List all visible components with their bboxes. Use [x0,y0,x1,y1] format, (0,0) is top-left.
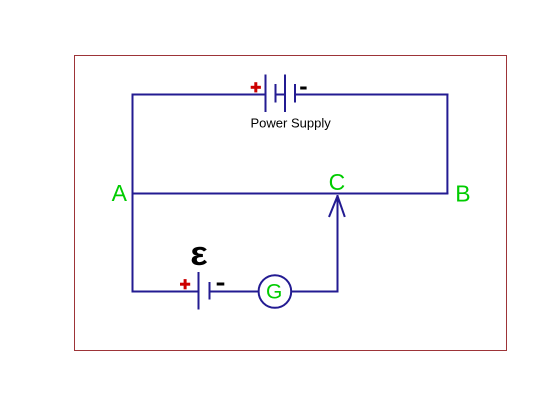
svg-text:B: B [455,180,470,206]
emf symbol epsilon [190,235,208,272]
wire: slide-wire A to B [132,193,449,195]
battery PS short plate 1 [275,84,277,103]
wire: bottom horizontal from left vertical to emf + plate [132,291,199,293]
wire: top-left horizontal from left vertical to power supply + plate [132,94,266,96]
wire: top-right horizontal from power supply - plate to right vertical [295,94,448,96]
wire: right vertical from top wire down to node B [446,94,448,195]
battery emf positive plate (tall) [198,272,200,310]
plus sign of emf [180,279,190,289]
wire: from galvanometer to wiper vertical [291,291,338,293]
plus sign of power supply [251,82,261,92]
svg-text:Power Supply: Power Supply [251,116,332,131]
svg-text:G: G [266,281,282,304]
svg-text:ε: ε [190,235,208,272]
battery PS negative plate (short) [294,84,296,103]
minus sign of power supply [300,87,306,90]
battery PS tall plate 2 [284,75,286,113]
galvanometer G circle [259,275,292,308]
wire: wiper vertical up to arrow at node C [337,195,339,293]
svg-text:C: C [329,169,346,195]
svg-text:A: A [112,180,128,206]
minus sign of emf [217,283,225,286]
wire: internal connector between battery cells [276,94,286,96]
wiper arrow head right leg [338,197,345,217]
battery PS positive plate (tall) [265,75,267,113]
wire: left vertical from top wire through node A down to bottom branch [132,94,134,293]
battery emf negative plate (short) [209,282,211,300]
wiper arrow head left leg [329,197,337,218]
wire: from emf - plate to galvanometer [210,291,259,293]
